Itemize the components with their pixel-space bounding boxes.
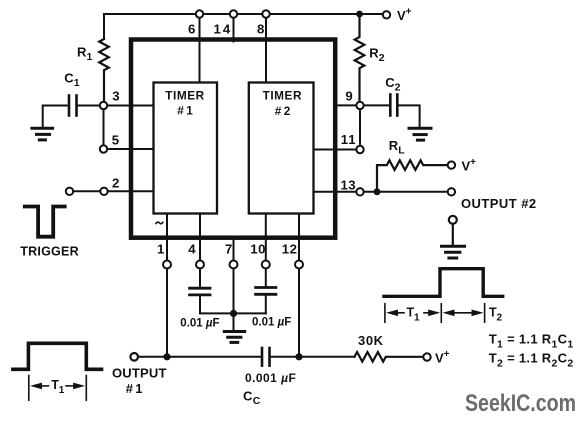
wire pin2 between circles: [73, 190, 100, 192]
wire cap bus: [200, 312, 266, 314]
wire pin3 to timer1: [107, 105, 153, 107]
svg-text:C: C: [243, 389, 253, 404]
wire pin12: [298, 214, 300, 261]
svg-text:+: +: [444, 349, 450, 360]
node pin3: [100, 102, 107, 109]
svg-text:3: 3: [112, 89, 119, 104]
svg-text:TIMER: TIMER: [165, 89, 204, 103]
svg-text:+: +: [406, 7, 412, 18]
svg-text:2: 2: [497, 313, 503, 324]
terminal OUTPUT #2: [448, 188, 455, 195]
label R1: [77, 44, 93, 63]
wire timer2 to pin11: [314, 149, 357, 151]
svg-text:0.01 µF: 0.01 µF: [252, 317, 291, 329]
svg-text:4: 4: [188, 241, 196, 256]
svg-text:1: 1: [135, 381, 142, 396]
junction dot pin12/bottom: [295, 353, 302, 360]
terminal V+ top right: [383, 11, 390, 18]
svg-text:OUTPUT #2: OUTPUT #2: [461, 196, 537, 211]
svg-text:7: 7: [225, 241, 232, 256]
wire IC to pin9: [335, 104, 356, 106]
node pin9: [356, 102, 363, 109]
svg-text:#: #: [177, 103, 184, 117]
dimension ticks output2: [384, 304, 386, 323]
dimension ticks output1: [28, 376, 30, 401]
svg-text:0.01 µF: 0.01 µF: [180, 318, 219, 330]
svg-text:2: 2: [379, 52, 385, 64]
terminal V+ at RL: [448, 161, 455, 168]
formula T1: [489, 331, 574, 350]
node pin13: [356, 188, 363, 195]
terminal ground under output2: [449, 216, 457, 224]
trigger input waveform: [25, 207, 65, 237]
wire pin10: [265, 214, 267, 261]
svg-text:#: #: [275, 104, 282, 118]
svg-text:R: R: [369, 46, 379, 61]
svg-text:L: L: [398, 145, 405, 157]
svg-text:1: 1: [74, 77, 80, 89]
dimension arrows T2: [454, 312, 473, 314]
svg-text:OUTPUT: OUTPUT: [112, 365, 167, 380]
wire pin6 drop: [199, 18, 201, 82]
wire output1 to cap: [138, 356, 260, 358]
wire pin1: [166, 214, 168, 261]
ground near C2: [409, 127, 431, 130]
pin label 6: [188, 21, 195, 36]
ground pin7: [224, 330, 244, 333]
svg-text:C: C: [253, 395, 261, 407]
ground under output2: [452, 224, 454, 246]
svg-text:11: 11: [341, 132, 357, 147]
svg-text:+: +: [470, 157, 476, 168]
dimension arrows T1: [397, 312, 404, 314]
junction dot RL/pin13: [374, 188, 381, 195]
output1 waveform pulse: [13, 343, 102, 369]
wire pin7: [233, 240, 235, 261]
tilde mark inside IC: [156, 222, 163, 224]
formula T2: [489, 351, 574, 370]
wire pin9 to C2: [364, 104, 389, 106]
svg-text:5: 5: [112, 133, 119, 148]
capacitor 0.01uF right: [256, 286, 276, 289]
svg-text:10: 10: [250, 241, 266, 256]
svg-text:1: 1: [59, 385, 65, 396]
wire pin2 to timer1: [108, 190, 154, 192]
svg-text:13: 13: [341, 177, 356, 192]
junction dot cap bus: [230, 310, 237, 317]
timer U1 box: [154, 83, 218, 214]
junction dot pin1/bottom: [163, 353, 170, 360]
resistor R2: [355, 14, 365, 102]
svg-text:8: 8: [257, 21, 264, 36]
capacitor Cc 0.001uF: [261, 348, 264, 366]
wire top V+ rail: [104, 13, 382, 15]
svg-text:0.001 µF: 0.001 µF: [245, 371, 296, 385]
wire pin5 to timer1: [107, 148, 153, 150]
pin label 14: [214, 21, 233, 36]
wire pin13 to output2: [364, 191, 448, 193]
resistor R1: [99, 39, 109, 102]
svg-text:2: 2: [395, 82, 401, 94]
terminal pin2 left: [66, 188, 73, 195]
capacitor C2: [389, 95, 392, 116]
pin label 8: [257, 21, 264, 36]
svg-text:30K: 30K: [358, 333, 384, 348]
node pin2: [100, 188, 107, 195]
svg-text:1: 1: [186, 103, 193, 117]
svg-text:1: 1: [157, 241, 164, 256]
output2 waveform pulse: [384, 269, 503, 297]
ground near C1: [32, 127, 53, 130]
node terminal circle pin6 on rail: [196, 10, 203, 17]
svg-text:TRIGGER: TRIGGER: [20, 245, 79, 259]
wire pin9-pin11 link: [359, 109, 361, 146]
node pin11: [356, 146, 363, 153]
node terminal circle pin14 on rail: [230, 10, 237, 17]
wire pin4: [199, 214, 201, 261]
svg-text:14: 14: [214, 21, 233, 36]
wire left V+ drop to R1: [103, 14, 105, 39]
junction dot top right: [356, 11, 363, 18]
terminal OUTPUT #1: [130, 353, 138, 361]
terminal V+ bottom: [423, 353, 430, 360]
svg-text:TIMER: TIMER: [263, 89, 302, 103]
svg-text:1: 1: [87, 51, 93, 63]
svg-text:12: 12: [282, 242, 298, 257]
svg-text:R: R: [77, 44, 87, 59]
IC 556 outer box: [131, 40, 335, 238]
capacitor C1: [78, 105, 100, 107]
svg-text:2: 2: [284, 104, 291, 118]
svg-text:9: 9: [345, 88, 352, 103]
node pin5: [100, 145, 107, 152]
svg-text:C: C: [64, 71, 74, 86]
wire timer2 to pin13: [314, 191, 357, 193]
svg-text:6: 6: [188, 21, 195, 36]
svg-text:2: 2: [112, 175, 119, 190]
wire pin3-pin5 link: [103, 109, 105, 145]
svg-text:SeekIC.com: SeekIC.com: [465, 390, 576, 417]
wire cap to 30K: [271, 356, 354, 358]
resistor RL: [377, 160, 448, 192]
wire pin8 drop: [265, 18, 267, 82]
wire pin14 drop: [233, 18, 235, 42]
node terminal circle pin8 on rail: [262, 10, 269, 17]
svg-text:#: #: [126, 381, 134, 396]
capacitor 0.01uF left: [190, 287, 210, 290]
timer U2 box: [249, 83, 314, 214]
dimension arrows T1 output1: [41, 385, 49, 387]
svg-text:1: 1: [414, 313, 420, 324]
watermark SeekIC.com: [465, 390, 576, 417]
resistor 30K: [355, 352, 424, 362]
